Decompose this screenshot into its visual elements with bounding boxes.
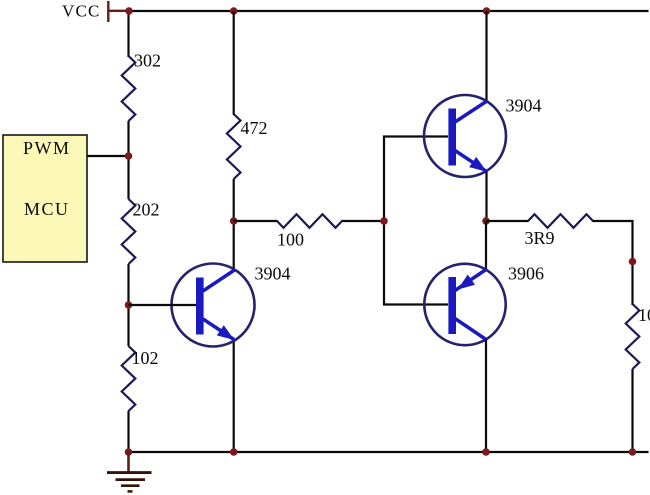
value label 472 <box>241 118 268 138</box>
junction right column <box>629 258 637 266</box>
resistor R4 472 <box>227 114 241 179</box>
component U1 MCU box <box>3 135 87 262</box>
svg-text:102: 102 <box>638 305 650 325</box>
junction VCC top left <box>125 7 133 15</box>
net label VCC <box>62 2 101 21</box>
junction ground rail Q1 <box>230 448 238 456</box>
value label R7 102 clipped <box>638 305 650 325</box>
wire VCC to Q2 collector <box>485 11 487 102</box>
value label 3R9 <box>525 228 555 248</box>
wire Q2 emitter to node <box>485 172 487 222</box>
wire base link vertical <box>384 137 448 305</box>
wire R1 to PWM node <box>127 121 129 199</box>
svg-text:3904: 3904 <box>255 264 291 284</box>
wire R4 to Q1 collector <box>233 179 235 271</box>
wire node to R5 <box>234 220 278 222</box>
junction base node Q1 <box>125 301 133 309</box>
wire Q3 collector to ground rail <box>485 340 487 453</box>
svg-text:3904: 3904 <box>506 96 542 116</box>
junction PWM node <box>125 152 133 160</box>
value label 100 <box>277 230 304 250</box>
svg-text:302: 302 <box>134 51 161 71</box>
junction ground rail Q3 <box>482 448 490 456</box>
value label Q1 3904 <box>255 264 291 284</box>
svg-text:472: 472 <box>241 118 268 138</box>
wire R5 to bases node <box>342 220 385 222</box>
junction R4 R5 node <box>230 217 238 225</box>
value label 302 <box>134 51 161 71</box>
wire node to R6 <box>486 220 529 222</box>
junction VCC top R4 <box>230 7 238 15</box>
svg-text:100: 100 <box>277 230 304 250</box>
junction bases node <box>380 217 388 225</box>
value label Q2 3904 <box>506 96 542 116</box>
pin label PWM <box>23 138 71 158</box>
transistor Q3 2N3906 PNP <box>424 264 505 345</box>
resistor R7 102 <box>626 304 640 369</box>
power symbol VCC <box>108 1 129 22</box>
junction emitters node <box>482 217 490 225</box>
resistor R1 302 <box>122 56 136 121</box>
transistor Q1 2N3904 NPN <box>129 264 255 347</box>
svg-text:MCU: MCU <box>24 199 70 219</box>
svg-text:PWM: PWM <box>23 138 71 158</box>
wire VCC to R1 <box>127 11 129 57</box>
svg-text:102: 102 <box>132 348 159 368</box>
wire bottom ground rail <box>129 451 649 453</box>
svg-text:202: 202 <box>133 200 160 220</box>
wire node to Q3 emitter <box>485 221 487 270</box>
resistor R5 100 <box>277 214 342 228</box>
wire top VCC rail <box>128 10 649 12</box>
svg-text:3R9: 3R9 <box>525 228 555 248</box>
part label MCU <box>24 199 70 219</box>
wire VCC to R4 <box>233 11 235 115</box>
wire R2 to base node <box>127 264 129 346</box>
transistor Q2 2N3904 NPN <box>424 95 506 177</box>
junction ground rail left <box>125 448 133 456</box>
value label 102 <box>132 348 159 368</box>
wire R7 to ground rail <box>631 369 633 452</box>
svg-text:3906: 3906 <box>508 264 544 284</box>
ground <box>107 452 152 491</box>
wire PWM pin to node <box>87 155 129 157</box>
wire R6 to right column <box>593 221 633 305</box>
wire R3 to ground rail <box>127 411 129 452</box>
resistor R3 102 <box>122 346 136 411</box>
wire Q1 emitter to ground rail <box>233 340 235 453</box>
resistor R6 3R9 <box>528 214 593 228</box>
value label Q3 3906 <box>508 264 544 284</box>
resistor R2 202 <box>122 199 136 264</box>
svg-text:VCC: VCC <box>62 2 101 21</box>
value label 202 <box>133 200 160 220</box>
junction ground rail right <box>629 448 637 456</box>
junction VCC top Q2 <box>483 7 491 15</box>
